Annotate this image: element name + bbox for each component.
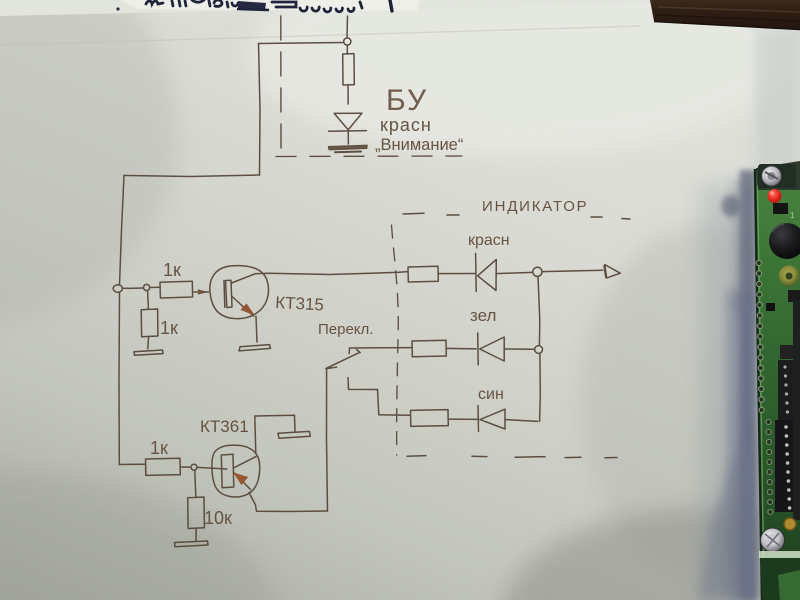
svg-text:1к: 1к: [160, 318, 178, 338]
wire green LED to node: [504, 348, 535, 350]
svg-text:Перекл.: Перекл.: [318, 321, 373, 338]
resistor 10k: [188, 470, 205, 541]
pcb pad column upper: [756, 260, 764, 412]
svg-text:красн: красн: [380, 115, 432, 135]
svg-text:1: 1: [790, 211, 795, 220]
svg-text:ИНДИКАТОР: ИНДИКАТОР: [482, 198, 589, 215]
svg-text:КТ361: КТ361: [200, 417, 249, 436]
node KT361 base junction: [191, 464, 197, 470]
transistor KT315: [210, 266, 269, 319]
svg-text:КТ315: КТ315: [275, 293, 325, 315]
resistor blue row: [411, 410, 449, 427]
wire supply entry top: [346, 16, 349, 38]
pcb brass pad: [784, 518, 796, 530]
pcb big header: [775, 420, 800, 512]
dashed indicator box top edge: [403, 213, 630, 219]
wire node to output arrow: [542, 270, 603, 271]
wire node2 down to blue row: [539, 353, 542, 421]
pcb shadow on paper: [698, 170, 756, 600]
resistor (BU lamp ballast): [343, 45, 355, 104]
emitter arrow KT315: [241, 304, 254, 315]
svg-text:син: син: [478, 386, 504, 403]
wire node to base: [197, 467, 227, 469]
ground 10k: [175, 541, 209, 547]
wire left vertical down: [259, 44, 261, 176]
svg-text:10к: 10к: [204, 508, 232, 528]
pcb dark blocks right: [788, 290, 800, 302]
resistor green row: [412, 340, 446, 357]
pcb small smd: [766, 303, 775, 311]
pcb board: [755, 161, 800, 600]
switch lever: [326, 350, 360, 369]
wire KT361 top terminal up and over: [255, 415, 295, 453]
node red output: [533, 267, 542, 276]
wire horizontal y175: [124, 175, 260, 177]
pcb buzzer: [769, 223, 800, 259]
switch throw1 wire to green row: [349, 348, 411, 354]
dashed box BU bottom edge: [276, 155, 462, 158]
wire KT361 emitter down and right to switch rail: [249, 493, 328, 512]
node green output: [535, 346, 543, 354]
wire node1 to node2 vertical: [538, 276, 540, 345]
ground (BU lamp): [329, 145, 368, 152]
node supply terminal: [344, 38, 351, 45]
svg-text:зел: зел: [470, 306, 496, 325]
pcb pad column lower: [766, 420, 773, 515]
pcb black component near LED: [773, 203, 788, 214]
wire left rail upper: [120, 176, 125, 286]
pcb top corner dark mount: [756, 161, 800, 190]
diode (BU red lamp): [329, 113, 367, 144]
pcb silkscreen strip: [759, 551, 800, 558]
resistor 1k base KT315: [160, 281, 193, 298]
top paper strip with handwriting: [0, 0, 656, 16]
pcb red LED: [768, 189, 782, 203]
wire resistor to green LED: [446, 347, 476, 350]
wire blue LED to vertical: [505, 420, 537, 422]
node on left rail: [113, 285, 122, 293]
resistor red row: [408, 266, 438, 282]
pcb bottom dark: [760, 558, 800, 600]
svg-text:1к: 1к: [163, 260, 181, 280]
svg-text:„Внимание“: „Внимание“: [375, 136, 463, 154]
wire junction to resistor: [150, 286, 160, 288]
output arrow terminal: [604, 265, 620, 278]
wire top horizontal to left: [259, 43, 344, 44]
wire resistor to blue LED: [448, 418, 477, 420]
desk corner top-right: [650, 0, 800, 30]
svg-text:красн: красн: [468, 232, 510, 249]
wire resistor to node: [180, 466, 191, 468]
ground pulldown: [134, 350, 163, 355]
pcb screw top: [762, 166, 782, 186]
wire rail corner to KT361 base resistor: [119, 463, 145, 465]
diode LED blue: [478, 406, 505, 432]
wire switch rail vertical up: [327, 369, 328, 512]
wire red LED to node: [496, 272, 532, 273]
dashed indicator box bottom edge: [407, 456, 617, 458]
wire KT315 emitter down: [256, 317, 257, 343]
diode LED red: [476, 254, 497, 292]
diode LED green: [478, 333, 505, 365]
resistor 1k pulldown KT315: [141, 291, 158, 349]
wire node to junction: [122, 287, 143, 289]
resistor 1k base KT361: [146, 458, 181, 475]
pcb screw bottom: [761, 528, 785, 552]
pcb yellow capacitor: [779, 266, 800, 287]
dashed box BU left edge: [280, 16, 282, 157]
wire KT315 collector: [255, 272, 408, 275]
transistor KT361: [212, 445, 260, 497]
svg-text:1к: 1к: [150, 438, 168, 458]
bar terminal KT361 top: [278, 431, 310, 438]
ground KT315 emitter: [239, 345, 271, 351]
svg-text:БУ: БУ: [386, 84, 428, 117]
wire left rail lower: [118, 292, 121, 464]
wire resistor to red LED: [438, 273, 474, 275]
emitter arrow KT361: [234, 473, 248, 485]
switch throw2 zigzag wire to blue row: [348, 378, 410, 416]
wire resistor to base with arrow: [193, 290, 209, 294]
node junction base divider: [144, 284, 150, 290]
dashed indicator box left edge: [392, 225, 399, 455]
